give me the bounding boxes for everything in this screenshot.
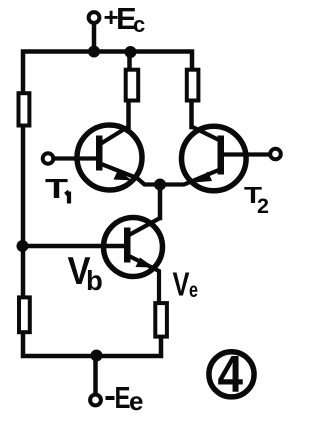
svg-text:V: V — [173, 266, 190, 303]
svg-text:e: e — [129, 386, 143, 416]
svg-text:b: b — [86, 265, 103, 296]
svg-text:4: 4 — [218, 346, 244, 404]
svg-text:T: T — [45, 173, 68, 204]
svg-text:2: 2 — [257, 194, 269, 218]
svg-text:c: c — [133, 12, 145, 37]
svg-text:e: e — [189, 279, 198, 302]
